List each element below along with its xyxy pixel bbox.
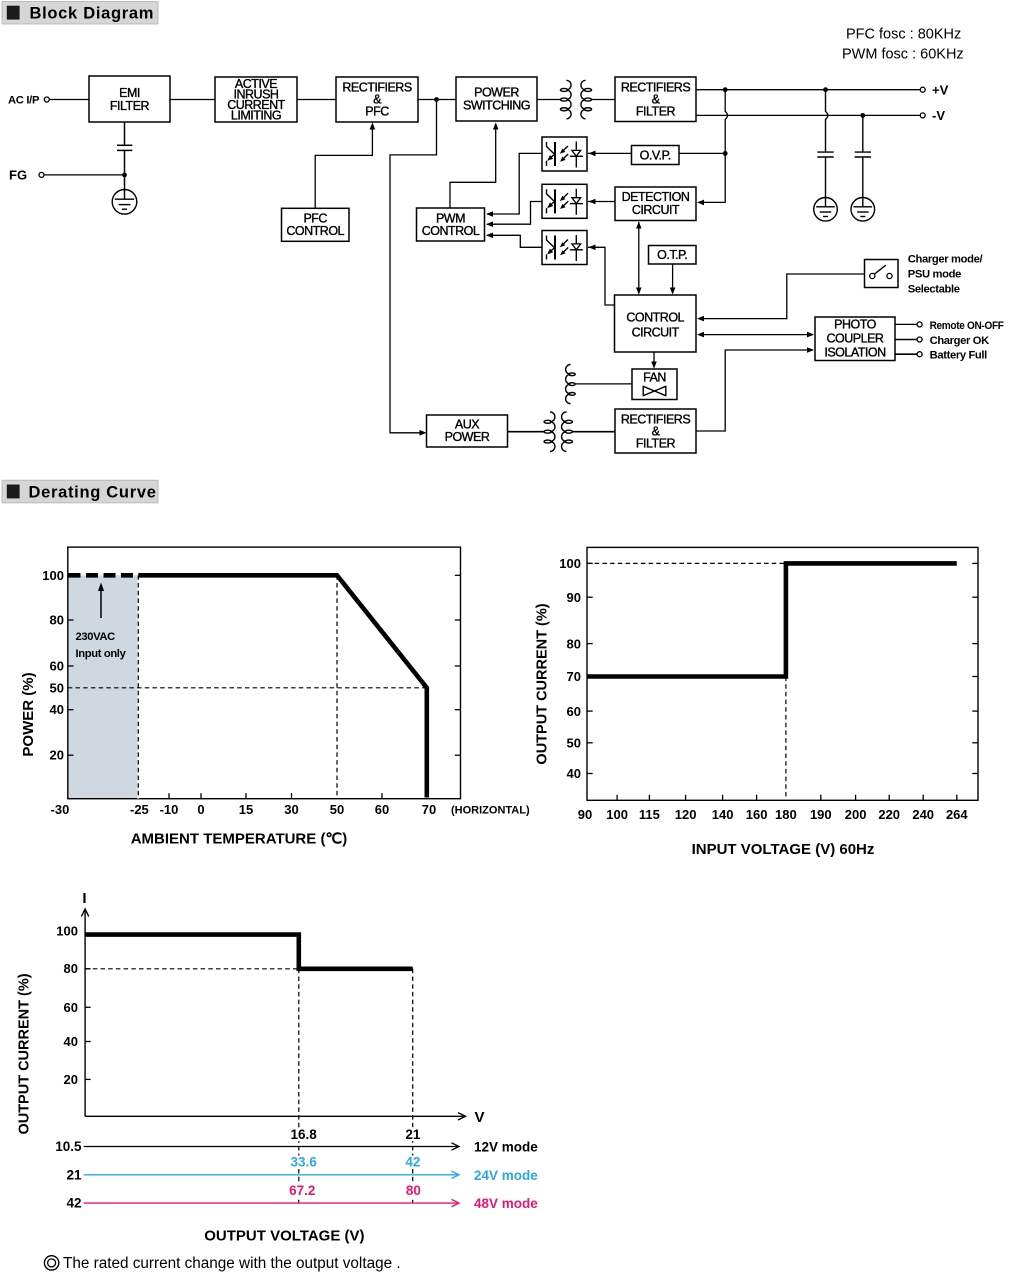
chart3 x-axis V [85, 1113, 465, 1120]
svg-text:15: 15 [239, 802, 253, 817]
svg-text:90: 90 [567, 590, 581, 605]
svg-text:CONTROL: CONTROL [626, 311, 684, 325]
svg-text:190: 190 [810, 807, 832, 822]
block O.T.P. [649, 246, 697, 265]
svg-text:40: 40 [50, 702, 64, 717]
svg-text:120: 120 [675, 807, 697, 822]
wire EMI FILTER to ACTIVE INRUSH [170, 99, 215, 101]
wire DETECTION CIRCUIT to optocoupler U2 [588, 201, 615, 203]
svg-text:21: 21 [405, 1127, 421, 1142]
chart3 V-axis value labels [288, 1128, 423, 1198]
terminal +V [920, 83, 948, 98]
chart3 24V mode value labels [290, 1155, 420, 1170]
svg-text:-25: -25 [130, 802, 149, 817]
svg-text:60: 60 [50, 659, 64, 674]
wire CONTROL CIRCUIT to PHOTO COUPLER ISOLATION [699, 334, 813, 336]
wire RECTIFIERS & PFC to POWER SWITCHING [418, 99, 456, 101]
svg-text:COUPLER: COUPLER [827, 332, 884, 346]
svg-text:80: 80 [567, 636, 581, 651]
svg-text:67.2: 67.2 [289, 1183, 315, 1198]
terminal -V [920, 108, 945, 123]
svg-text:AMBIENT TEMPERATURE (℃): AMBIENT TEMPERATURE (℃) [131, 831, 348, 848]
svg-text:60: 60 [375, 802, 389, 817]
svg-text:FAN: FAN [643, 371, 666, 385]
svg-text:DETECTION: DETECTION [622, 190, 690, 204]
svg-text:ISOLATION: ISOLATION [824, 346, 886, 360]
chart1 230VAC annotation arrow [100, 586, 102, 618]
svg-text:40: 40 [567, 766, 581, 781]
svg-text:48V mode: 48V mode [474, 1196, 538, 1211]
wire +V down to OVP/DETECTION (hops -V) [699, 90, 728, 203]
terminal FG [9, 167, 44, 182]
svg-text:OUTPUT VOLTAGE (V): OUTPUT VOLTAGE (V) [204, 1228, 364, 1245]
wire RECTIFIERS & FILTER (aux) to PHOTO COUPLER ISOLATION [696, 350, 813, 431]
ground G3 [851, 198, 875, 222]
arrow into AUX POWER [420, 430, 427, 436]
terminal AC I/P [8, 95, 49, 107]
svg-text:POWER (%): POWER (%) [20, 672, 37, 756]
section header: Derating Curve [2, 480, 158, 503]
chart2 dashed vertical 180V [785, 677, 787, 801]
svg-text:POWER: POWER [474, 86, 519, 100]
svg-text:FG: FG [9, 167, 27, 182]
svg-text:50: 50 [50, 680, 64, 695]
svg-text:140: 140 [712, 807, 734, 822]
wire winding L1 to FAN [576, 383, 633, 385]
transformer T1 [560, 80, 591, 119]
svg-text:80: 80 [50, 613, 64, 628]
node +V junction to OVP drop [723, 87, 728, 92]
optocoupler U1 (OVP feedback) [542, 137, 587, 171]
svg-text:100: 100 [559, 556, 581, 571]
chart1 y-axis labels [42, 568, 64, 763]
svg-text:240: 240 [912, 807, 934, 822]
block ACTIVE INRUSH CURRENT LIMITING [215, 77, 297, 123]
chart1 x-axis labels [51, 802, 437, 817]
chart2 plot border [587, 547, 978, 800]
node -V junction to C3 [860, 113, 865, 118]
svg-text:200: 200 [845, 807, 867, 822]
chart1 dashed vertical 50C [336, 575, 338, 798]
wire AUX POWER to transformer T2 [508, 431, 546, 433]
svg-text:Charger OK: Charger OK [930, 335, 990, 347]
wire POWER SWITCHING to transformer T1 [537, 99, 562, 101]
svg-text:PWM fosc : 60KHz: PWM fosc : 60KHz [842, 47, 964, 63]
chart1 x-axis ticks [169, 793, 382, 799]
section header: Block Diagram [2, 2, 158, 25]
block CONTROL CIRCUIT [615, 295, 697, 352]
svg-text:INPUT VOLTAGE (V) 60Hz: INPUT VOLTAGE (V) 60Hz [692, 841, 875, 858]
wire FG to ground node [44, 174, 125, 176]
svg-text:O.V.P.: O.V.P. [640, 149, 671, 163]
svg-text:100: 100 [606, 807, 628, 822]
svg-text:20: 20 [64, 1072, 78, 1087]
chart1 shaded low-temp region [69, 575, 139, 798]
svg-text:Selectable: Selectable [908, 284, 960, 296]
svg-text:21: 21 [66, 1167, 82, 1182]
svg-text:42: 42 [405, 1155, 420, 1170]
chart3 dashed vertical 16.8V [298, 969, 300, 1203]
arrow up into RECTIFIERS & PFC [370, 123, 376, 130]
chart1 derating curve dashed segment [69, 573, 139, 578]
chart1 y-axis ticks [68, 575, 461, 755]
svg-text:230VAC: 230VAC [76, 631, 116, 643]
svg-text:(HORIZONTAL): (HORIZONTAL) [451, 805, 530, 817]
svg-text:PHOTO: PHOTO [834, 318, 876, 332]
svg-text:CONTROL: CONTROL [422, 224, 480, 238]
wire optocoupler U3 to PWM CONTROL [487, 235, 542, 247]
block RECTIFIERS & FILTER (aux) [615, 409, 696, 453]
svg-text:30: 30 [284, 802, 298, 817]
svg-text:60: 60 [64, 1000, 78, 1015]
wire O.V.P. to +V drop [679, 152, 725, 154]
svg-text:50: 50 [567, 736, 581, 751]
svg-text:Battery Full: Battery Full [930, 350, 988, 362]
svg-text:160: 160 [746, 807, 768, 822]
svg-text:100: 100 [56, 924, 78, 939]
block PWM CONTROL [417, 208, 485, 241]
terminal Battery Full [895, 350, 987, 362]
svg-text:Input only: Input only [76, 648, 127, 660]
svg-text:180: 180 [775, 807, 797, 822]
chart2 step curve [587, 563, 957, 676]
svg-text:10.5: 10.5 [55, 1139, 82, 1154]
wire CONTROL CIRCUIT to optocoupler U3 [588, 247, 615, 305]
svg-text:I: I [82, 890, 86, 907]
svg-text:Derating Curve: Derating Curve [29, 484, 157, 502]
note PFC fosc : 80KHz / PWM fosc : 60KHz [842, 27, 964, 63]
block POWER SWITCHING [456, 77, 537, 121]
svg-text:70: 70 [567, 669, 581, 684]
svg-text:The rated current change with: The rated current change with the output… [63, 1255, 401, 1272]
block RECTIFIERS & FILTER (main output) [615, 77, 696, 122]
svg-text:-30: -30 [51, 802, 70, 817]
svg-text:Charger mode/: Charger mode/ [908, 254, 983, 266]
chart2 y-axis ticks [587, 563, 978, 773]
svg-text:PFC fosc : 80KHz: PFC fosc : 80KHz [846, 27, 961, 43]
svg-text:CIRCUIT: CIRCUIT [632, 203, 680, 217]
block DETECTION CIRCUIT [615, 187, 696, 221]
chart2 x-axis labels [578, 807, 969, 822]
wire DETECTION CIRCUIT to CONTROL CIRCUIT (double arrow) [638, 222, 640, 294]
svg-text:OUTPUT CURRENT (%): OUTPUT CURRENT (%) [17, 973, 33, 1134]
chart1 dashed horizontal 50% [68, 687, 427, 689]
chart1 230VAC annotation text [76, 631, 127, 660]
wire CONTROL CIRCUIT to FAN [653, 352, 655, 368]
chart3 24V mode axis [66, 1167, 538, 1183]
chart2 x-axis ticks [617, 795, 957, 801]
svg-text:220: 220 [878, 807, 900, 822]
optocoupler U2 (detection feedback) [542, 184, 587, 218]
svg-text:CONTROL: CONTROL [286, 224, 344, 238]
ground G2 [814, 198, 838, 222]
svg-text:42: 42 [66, 1196, 81, 1211]
chart3 dashed horizontal 80% [85, 968, 299, 970]
wire main bus junction down-left to AUX POWER [390, 100, 437, 433]
switch SW1 Charger/PSU mode [865, 260, 899, 288]
svg-text:AC I/P: AC I/P [8, 95, 40, 107]
node OVP tee [723, 151, 728, 156]
svg-text:SWITCHING: SWITCHING [463, 99, 530, 113]
wire RECTIFIERS&PFC to PFC CONTROL [315, 124, 372, 208]
svg-text:PFC: PFC [365, 105, 389, 119]
chart3 48V mode value labels [289, 1183, 421, 1198]
wire -V rail [696, 114, 920, 116]
svg-text:+V: +V [932, 83, 949, 98]
block PFC CONTROL [282, 208, 350, 241]
capacitor C1 (EMI Y-cap) [117, 122, 132, 199]
chart3 12V mode axis [55, 1139, 538, 1155]
svg-text:115: 115 [639, 807, 660, 822]
label Charger mode / PSU mode Selectable [908, 254, 983, 296]
chart1 plot border [68, 547, 461, 799]
chart3 step curve [85, 935, 413, 969]
svg-text:0: 0 [197, 802, 204, 817]
svg-text:264: 264 [946, 807, 968, 822]
wire O.T.P. to CONTROL CIRCUIT [672, 264, 674, 294]
wire transformer T2 to RECTIFIERS & FILTER (aux) [572, 431, 616, 433]
svg-text:16.8: 16.8 [290, 1127, 317, 1142]
node junction on main bus [434, 97, 439, 102]
svg-text:O.T.P.: O.T.P. [657, 248, 687, 262]
svg-text:V: V [475, 1109, 485, 1126]
svg-text:80: 80 [64, 961, 78, 976]
block RECTIFIERS & PFC [336, 77, 418, 122]
wire +V rail [696, 89, 920, 91]
svg-text:EMI: EMI [119, 86, 140, 100]
wire transformer T1 to RECTIFIERS & FILTER [591, 99, 616, 101]
chart1 derating curve solid [138, 575, 427, 797]
svg-text:CIRCUIT: CIRCUIT [632, 326, 680, 340]
svg-text:FILTER: FILTER [636, 437, 676, 451]
svg-text:PSU mode: PSU mode [908, 269, 961, 281]
svg-text:Remote ON-OFF: Remote ON-OFF [930, 320, 1004, 332]
terminal Remote ON-OFF [895, 320, 1004, 332]
chart3 y-axis ticks [85, 969, 91, 1080]
svg-text:-V: -V [932, 108, 945, 123]
svg-text:FILTER: FILTER [636, 105, 676, 119]
block FAN [632, 369, 677, 400]
svg-text:-10: -10 [160, 802, 179, 817]
arrow into DETECTION right [697, 200, 704, 206]
transformer T2 [544, 412, 573, 452]
block PHOTO COUPLER ISOLATION [815, 317, 895, 361]
svg-text:33.6: 33.6 [290, 1155, 317, 1170]
footnote [44, 1255, 400, 1272]
ground G1 [112, 190, 137, 215]
wire optocoupler U1 to PWM CONTROL [487, 153, 542, 214]
svg-text:40: 40 [64, 1034, 78, 1049]
svg-text:100: 100 [42, 568, 64, 583]
svg-text:12V mode: 12V mode [474, 1140, 538, 1155]
wire optocoupler U2 to PWM CONTROL [487, 202, 542, 225]
chart2 dashed horizontal 100% [587, 562, 786, 564]
svg-text:70: 70 [422, 802, 436, 817]
chart3 48V mode axis [66, 1196, 538, 1212]
svg-text:90: 90 [578, 807, 592, 822]
wire CONTROL CIRCUIT to selector switch [699, 274, 865, 319]
svg-text:60: 60 [567, 704, 581, 719]
capacitor C3 (-V output cap) [855, 115, 871, 206]
capacitor C2 (+V output cap, hops -V) [817, 90, 833, 207]
fan supply winding L1 [566, 365, 576, 404]
svg-text:50: 50 [330, 802, 344, 817]
svg-text:24V mode: 24V mode [474, 1168, 538, 1183]
node FG junction [122, 173, 127, 178]
block O.V.P. [632, 146, 680, 165]
chart3 y-axis [81, 909, 88, 1116]
svg-text:POWER: POWER [445, 430, 490, 444]
svg-text:20: 20 [50, 748, 64, 763]
chart1 dashed vertical -25C [137, 575, 139, 798]
optocoupler U3 (control feedback) [542, 231, 587, 265]
chart2 y-axis labels [559, 556, 581, 781]
block AUX POWER [427, 415, 508, 447]
svg-text:Block Diagram: Block Diagram [30, 5, 155, 23]
wire ACTIVE INRUSH to RECTIFIERS & PFC [297, 99, 336, 101]
svg-text:80: 80 [406, 1183, 421, 1198]
wire O.V.P. to optocoupler U1 [588, 152, 632, 154]
block EMI FILTER [89, 76, 170, 122]
wire PWM CONTROL to POWER SWITCHING [450, 124, 496, 208]
chart3 y-axis labels [56, 924, 78, 1087]
terminal Charger OK [895, 335, 989, 347]
svg-text:OUTPUT CURRENT (%): OUTPUT CURRENT (%) [535, 603, 551, 764]
chart3 dashed vertical 21V [412, 969, 414, 1203]
wire AC I/P to EMI FILTER [49, 99, 89, 101]
svg-text:LIMITING: LIMITING [231, 109, 281, 123]
svg-text:FILTER: FILTER [110, 99, 150, 113]
arrow up into POWER SWITCHING [493, 123, 499, 130]
node +V junction to C2 [823, 87, 828, 92]
